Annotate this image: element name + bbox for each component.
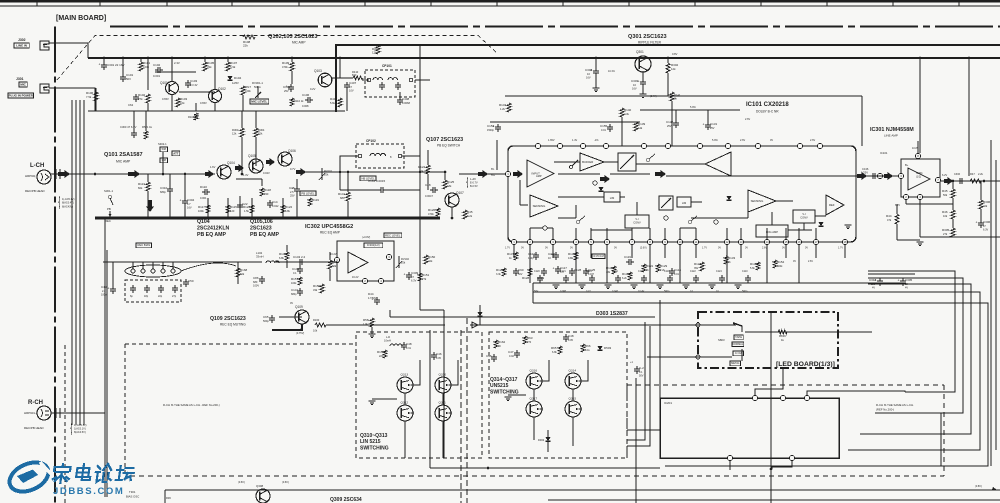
svg-text:10: 10 (633, 83, 636, 87)
svg-text:0.01: 0.01 (674, 273, 679, 276)
wire (539, 283, 541, 288)
LED BOARD outline (698, 312, 838, 368)
svg-text:C142: C142 (292, 267, 300, 271)
svg-text:R110 1k: R110 1k (294, 99, 304, 103)
svg-text:680p: 680p (160, 190, 166, 194)
transistor Q103 (318, 73, 332, 87)
wire line out (940, 180, 1000, 182)
svg-text:100k: 100k (143, 65, 150, 69)
wire internal pin stub (695, 228, 697, 239)
wire (952, 198, 954, 210)
resistor R124 12k (426, 165, 430, 174)
svg-text:33mH: 33mH (256, 255, 263, 259)
svg-text:13k: 13k (638, 126, 643, 130)
capacitor C14 0.022 (269, 200, 271, 203)
capacitor C106 0.008 (305, 99, 308, 101)
svg-text:1500p: 1500p (487, 129, 495, 132)
junction (251, 217, 254, 220)
svg-text:100V: 100V (101, 294, 107, 297)
svg-text:5.6k: 5.6k (750, 267, 755, 270)
wire S302 to path (162, 152, 164, 174)
svg-text:(0.8V): (0.8V) (975, 485, 982, 488)
wire (332, 77, 353, 79)
long dashed boundary (130, 475, 944, 477)
wire (329, 252, 331, 260)
svg-text:R127: R127 (496, 268, 504, 272)
svg-text:47k: 47k (887, 218, 892, 222)
svg-text:2k: 2k (646, 269, 649, 272)
wire (242, 95, 244, 111)
wire left long 1 (104, 218, 106, 497)
wire loop B (868, 278, 963, 413)
wire (241, 111, 243, 128)
svg-text:6.3V: 6.3V (983, 229, 988, 232)
svg-text:10: 10 (716, 290, 719, 293)
svg-text:0.001: 0.001 (200, 196, 207, 200)
grid tick (496, 1, 498, 6)
rotary switch S301 contacts (125, 265, 181, 277)
wire (340, 189, 378, 191)
ground internal (845, 224, 852, 226)
svg-text:R155: R155 (313, 284, 321, 288)
svg-text:2.3V: 2.3V (174, 61, 180, 65)
capacitor C407 47 10V (346, 82, 348, 85)
rec/pb head L-CH (37, 170, 51, 184)
capacitor C305 22 4V (902, 278, 904, 281)
svg-text:C301 22 16V: C301 22 16V (107, 63, 125, 67)
svg-text:12k: 12k (671, 67, 676, 71)
resistor R302 12k (666, 63, 670, 73)
svg-text:RN7: RN7 (245, 85, 251, 89)
svg-text:270: 270 (527, 341, 532, 344)
resistor R128 6.2k (528, 268, 532, 276)
svg-text:16.2V: 16.2V (330, 253, 337, 256)
IC IC101 outline (508, 146, 856, 242)
wire to IC101 pin1 (459, 173, 505, 175)
svg-text:C65: C65 (263, 315, 269, 319)
wire bundle 1 (627, 322, 645, 440)
svg-text:Q312: Q312 (401, 401, 409, 405)
svg-text:16V: 16V (632, 87, 637, 91)
svg-text:2k: 2k (728, 261, 731, 264)
svg-text:V-ICONV: V-ICONV (800, 212, 808, 220)
svg-text:1.6V: 1.6V (210, 165, 216, 169)
svg-text:0V: 0V (570, 247, 573, 250)
switch contact internal 1 (577, 221, 580, 224)
junction (147, 217, 150, 220)
svg-text:R151: R151 (422, 273, 430, 277)
wire (207, 198, 209, 218)
wire loop C (860, 284, 971, 434)
wire (145, 111, 147, 131)
svg-text:10: 10 (587, 72, 590, 76)
curve to R168 (181, 263, 236, 271)
capacitor C123 0.22 (591, 275, 593, 278)
svg-text:Q101 2SA1587: Q101 2SA1587 (104, 152, 143, 158)
wire rail corner down (861, 96, 863, 146)
resistor R151 27k (418, 273, 422, 281)
svg-text:C407: C407 (349, 81, 357, 85)
wire (133, 111, 135, 130)
svg-text:3.3 4V: 3.3 4V (190, 83, 198, 87)
wire cap rail upper (490, 121, 640, 123)
brace2 (467, 177, 468, 188)
pin IC101-9 (662, 239, 667, 244)
wire (530, 227, 553, 229)
svg-text:C304: C304 (187, 198, 195, 202)
wire (533, 389, 535, 401)
svg-text:0.047: 0.047 (612, 290, 619, 293)
resistor R162 90 (494, 340, 498, 348)
resistor R66 8.1k (581, 344, 585, 352)
svg-text:22k: 22k (428, 259, 433, 263)
wire pin drop (695, 245, 697, 258)
svg-text:C124: C124 (716, 270, 722, 273)
svg-text:16: 16 (797, 240, 801, 244)
op-amp REF (826, 195, 844, 215)
wire (680, 227, 696, 229)
resistor R136 130k (574, 252, 578, 260)
svg-text:(0.6V): (0.6V) (238, 481, 245, 484)
wire (747, 201, 749, 218)
wire internal pin stub (552, 228, 554, 239)
wire v x444 (443, 325, 445, 458)
wire (184, 206, 186, 218)
signal arrow into Q104 (205, 170, 214, 178)
wire bundle 3 (627, 300, 660, 430)
grid tick (231, 1, 233, 6)
svg-text:17: 17 (814, 240, 818, 244)
svg-text:0.2V: 0.2V (310, 87, 316, 91)
junction (487, 467, 490, 470)
wire internal pin stub (766, 228, 768, 239)
transistor Q315 (565, 401, 581, 417)
svg-text:Q1042SC2412KLNPB EQ AMP: Q1042SC2412KLNPB EQ AMP (197, 219, 230, 238)
svg-text:C131: C131 (710, 122, 718, 126)
wire (788, 229, 812, 231)
svg-text:R162: R162 (498, 340, 506, 344)
svg-text:IC302 UPC4558G2: IC302 UPC4558G2 (305, 224, 353, 230)
switch S803 lever (736, 324, 742, 332)
pin IC101 top 3 (580, 143, 585, 148)
wire (286, 260, 288, 268)
svg-text:680: 680 (253, 280, 258, 284)
resistor R410 820 (353, 76, 363, 80)
svg-text:0V: 0V (545, 247, 548, 250)
transistor Q106 (278, 152, 292, 166)
wire (547, 430, 549, 437)
wire pin drop long (726, 258, 728, 283)
dashed box R left (626, 385, 628, 458)
wire (347, 201, 349, 218)
resistor R141 680 (346, 192, 350, 201)
junction (770, 468, 773, 471)
power bus B+ rail (88, 57, 1000, 59)
svg-text:0.65V: 0.65V (162, 97, 169, 101)
wire (103, 58, 105, 62)
cap bank outline (125, 280, 181, 302)
watermark char jia (52, 464, 71, 483)
svg-text:D302: D302 (538, 438, 545, 442)
wire (296, 179, 298, 186)
svg-text:Q316: Q316 (530, 369, 538, 373)
svg-text:C310: C310 (160, 186, 168, 190)
signal arrow down to bus (146, 200, 154, 212)
boxed label R170 1M (592, 254, 605, 259)
svg-text:27k: 27k (422, 277, 427, 281)
watermark swirl icon (5, 457, 53, 497)
wire S803 to R819 right (745, 331, 872, 333)
grid tick (99, 1, 101, 6)
junction (227, 57, 230, 60)
svg-text:C119: C119 (624, 255, 631, 259)
ground bus stub (709, 284, 716, 286)
resistor R115 120 (226, 205, 230, 213)
capacitor C121 0.068 (565, 275, 567, 278)
resistor R155 33k (320, 284, 324, 293)
svg-text:0.05: 0.05 (568, 339, 573, 342)
resistor R159 220 (383, 350, 387, 358)
grid tick (826, 1, 828, 6)
wire IC201 pins up (755, 369, 783, 395)
pin IC101-18 (842, 239, 847, 244)
wire IC101 to IC301 (856, 175, 901, 177)
resistor R132 33k (612, 266, 616, 274)
wire (640, 109, 740, 111)
capacitor C125 0.047 (585, 268, 587, 271)
svg-text:Q317: Q317 (530, 397, 538, 401)
wire (299, 262, 301, 266)
wire internal pin stub (529, 228, 531, 239)
capacitor C-2 0.1 50V (636, 366, 638, 369)
svg-text:C86: C86 (253, 276, 259, 280)
wire (558, 196, 604, 198)
capacitor C122 0.1 (695, 275, 697, 278)
wire (346, 90, 348, 111)
diode D104 1/25V (227, 76, 232, 80)
ground IC301 (917, 241, 924, 243)
wire v x430 (429, 330, 431, 468)
grid tick (430, 1, 432, 6)
wire to CP102 in (340, 156, 358, 172)
svg-text:C141: C141 (291, 288, 299, 292)
pin IC301-4 (917, 194, 922, 199)
svg-text:27k: 27k (943, 232, 948, 236)
svg-text:REC BIAS: REC BIAS (138, 243, 151, 247)
boxed label IC302(1/2) (364, 243, 383, 248)
wire J302 to bus (49, 43, 88, 58)
boxed label CrO2 (733, 351, 744, 356)
resistor R142 2k (670, 92, 674, 101)
junction (103, 57, 106, 60)
page frame top rule (0, 0, 1000, 2)
svg-text:22p: 22p (158, 295, 163, 298)
ground bus stub (631, 284, 638, 286)
dashed routing line (57, 36, 497, 81)
boxed label 308 (160, 158, 168, 163)
svg-text:R47: R47 (970, 172, 975, 176)
wire loop A (868, 271, 955, 392)
capacitor C119 0.1 (626, 261, 629, 263)
svg-text:+: + (404, 272, 406, 276)
wire (427, 174, 429, 190)
wire internal pin stub (798, 228, 800, 239)
svg-text:JDBBS.COM: JDBBS.COM (53, 486, 124, 497)
svg-text:R120: R120 (243, 205, 251, 209)
boxed label MIC LEVEL (250, 99, 269, 104)
wire (291, 71, 293, 84)
switch contact (570, 166, 573, 169)
resistor R125 18k (443, 180, 447, 189)
resistor R65 6.8k (558, 346, 562, 354)
wire (896, 224, 898, 240)
svg-text:R139: R139 (638, 122, 646, 126)
wire (95, 88, 97, 111)
dashed box R right (943, 385, 945, 476)
resistor R411 5.6k (338, 98, 342, 107)
svg-text:(0.75V): (0.75V) (296, 332, 304, 335)
svg-text:15: 15 (784, 240, 788, 244)
capacitor C137 (957, 180, 960, 182)
svg-text:MIC AMP: MIC AMP (116, 160, 131, 164)
svg-text:Q102: Q102 (218, 87, 226, 91)
capacitor C103 3.3 4V (187, 80, 189, 83)
capacitor C136 1/25V (870, 175, 873, 177)
svg-text:0.1: 0.1 (690, 290, 694, 293)
svg-text:6.3V: 6.3V (411, 279, 417, 283)
svg-text:R117: R117 (198, 205, 205, 209)
pin IC101 top 10 (797, 143, 802, 148)
wire (442, 393, 444, 405)
svg-text:Q109 2SC1623: Q109 2SC1623 (210, 316, 246, 322)
svg-text:SENSING: SENSING (751, 199, 764, 203)
svg-text:8.1k: 8.1k (585, 349, 590, 352)
wire (238, 261, 262, 263)
capacitor D44 4.7 50V (376, 297, 378, 300)
svg-text:R-CH IS THE SAME AS L-CH...REF: R-CH IS THE SAME AS L-CH...REF No.200-) (163, 403, 220, 407)
resistor R117 100k (206, 205, 210, 213)
svg-text:C-2: C-2 (639, 366, 644, 370)
svg-text:470k: 470k (282, 65, 288, 69)
variable attenuator 2 (659, 196, 673, 210)
boxed label ATT (172, 151, 180, 156)
svg-text:0.05: 0.05 (436, 357, 441, 360)
pin IC201 t1 (752, 395, 757, 400)
junction (419, 57, 422, 60)
svg-text:R44: R44 (886, 214, 892, 218)
transistor Q105 (249, 159, 263, 173)
junction (347, 171, 350, 174)
pin IC101-1 (511, 239, 516, 244)
svg-text:R45: R45 (942, 189, 948, 193)
wire contact (162, 262, 164, 269)
wire (575, 205, 577, 218)
wire contact (142, 262, 144, 269)
wire internal pin stub (740, 228, 742, 239)
wire head bus 1 (71, 100, 73, 425)
pin IC101-15 (783, 239, 788, 244)
wire (527, 174, 529, 195)
signal arrow into IC101 (478, 170, 488, 178)
wire (695, 283, 697, 288)
pin internal (664, 216, 668, 220)
wire supply right (968, 58, 970, 176)
resistor R106 7.5k (94, 92, 98, 101)
svg-text:BUFFER: BUFFER (582, 160, 593, 164)
pin CP102 out (398, 154, 402, 158)
wire (184, 174, 186, 198)
wire contact (132, 262, 134, 269)
resistor R126 470k (436, 208, 440, 216)
pin LED board 1 (696, 323, 700, 327)
junction (451, 217, 454, 220)
svg-text:R125: R125 (447, 180, 455, 184)
svg-text:100k: 100k (291, 282, 297, 285)
PB signal line (95, 173, 215, 175)
capacitor C118 0.01 (671, 268, 673, 271)
svg-text:R130: R130 (622, 272, 630, 276)
inductor L102 (266, 261, 279, 263)
pin IC101 top 7 (697, 143, 702, 148)
svg-text:1.65V: 1.65V (548, 139, 555, 142)
svg-text:56k: 56k (332, 264, 337, 268)
switch contact internal 2 (689, 221, 692, 224)
wire pin drop (844, 245, 846, 258)
boxed label HB LEVEL (360, 176, 376, 181)
wire internal pin stub (575, 228, 577, 239)
wire B+ drop to IC301 (919, 58, 921, 153)
svg-text:C118: C118 (674, 268, 681, 272)
svg-text:+: + (553, 266, 555, 270)
wire pin drop (575, 245, 577, 258)
svg-text:100V: 100V (253, 284, 259, 288)
label PLUG IN POWER (8, 93, 34, 98)
wire (386, 189, 420, 191)
wire (591, 283, 593, 288)
resistor R135 5.6k (756, 262, 760, 270)
svg-text:56k: 56k (943, 193, 948, 197)
transistor Q314 (565, 373, 581, 389)
grid tick (298, 1, 300, 6)
svg-text:2.6V: 2.6V (810, 139, 815, 142)
svg-text:0.22: 0.22 (586, 290, 591, 293)
diode D303 (477, 312, 482, 316)
svg-text:0.02: 0.02 (509, 355, 514, 358)
svg-text:0.047: 0.047 (588, 273, 595, 276)
pin IC101-14 (764, 239, 769, 244)
resistor R139 13k (634, 122, 638, 131)
svg-text:R168: R168 (240, 268, 248, 272)
svg-text:C126: C126 (548, 252, 556, 256)
svg-text:22k: 22k (983, 204, 988, 208)
svg-text:C46: C46 (436, 352, 442, 356)
svg-text:R119: R119 (312, 198, 319, 202)
svg-text:C308: C308 (585, 68, 593, 72)
pin IC101 top 4 (603, 143, 608, 148)
pin IC101-12 (724, 239, 729, 244)
svg-text:3.3k: 3.3k (496, 273, 501, 276)
svg-text:1/25V: 1/25V (232, 81, 239, 85)
capacitor C90 50V (515, 268, 517, 271)
wire IC201 b2 down (772, 461, 792, 469)
wire (389, 310, 391, 317)
svg-text:47: 47 (349, 85, 352, 89)
potentiometer RV101 10k (321, 168, 323, 180)
pin IC101-10 (677, 239, 682, 244)
capacitor C46b 0.05 (493, 354, 495, 357)
wire pin drop long (798, 258, 800, 283)
wire (171, 58, 173, 81)
